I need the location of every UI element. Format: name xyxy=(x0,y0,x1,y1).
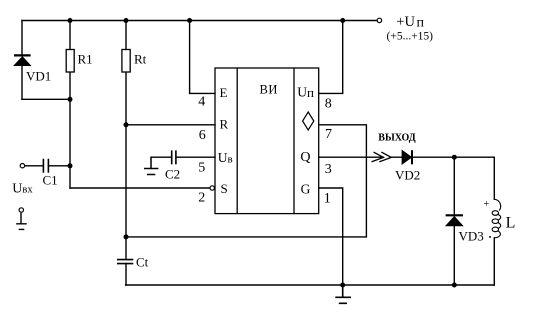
svg-text:C1: C1 xyxy=(43,173,58,188)
ground input terminal xyxy=(16,213,27,230)
wire VD1 branch vertical xyxy=(21,21,23,100)
wire R pin horizontal xyxy=(126,124,215,126)
svg-text:Rt: Rt xyxy=(134,52,147,67)
svg-text:VD3: VD3 xyxy=(459,229,484,244)
diode VD2 xyxy=(402,150,412,164)
output arrow chevrons xyxy=(372,152,391,161)
wire E pin xyxy=(190,21,215,94)
wire VD1 bottom horizontal xyxy=(22,98,70,100)
capacitor Ct xyxy=(117,260,133,264)
svg-text:Uвх: Uвх xyxy=(12,181,33,196)
capacitor C1 xyxy=(43,159,48,173)
junction pin7 return Rt line xyxy=(124,234,129,239)
label minus polarity xyxy=(489,236,491,238)
ground under C2 xyxy=(144,157,158,174)
junction C1 input node xyxy=(68,163,73,168)
resistor Rt xyxy=(122,50,130,73)
junction R-pin Rt xyxy=(124,122,129,127)
wire pin 8 to rail xyxy=(319,21,343,94)
diode VD1 xyxy=(14,55,31,65)
svg-text:S: S xyxy=(221,181,228,196)
svg-text:7: 7 xyxy=(325,127,332,142)
svg-text:R: R xyxy=(220,117,229,132)
svg-text:E: E xyxy=(220,85,228,100)
wire top supply rail xyxy=(22,20,377,22)
junction Rt top rail xyxy=(124,18,129,23)
svg-text:+: + xyxy=(484,199,490,210)
capacitor C2 xyxy=(172,150,176,164)
svg-text:L: L xyxy=(506,215,516,232)
junction VD3 bottom rail xyxy=(452,283,457,288)
svg-text:1: 1 xyxy=(324,191,332,207)
terminal Uvx open circle xyxy=(20,164,24,168)
svg-text:VD2: VD2 xyxy=(395,168,420,183)
svg-text:8: 8 xyxy=(325,97,332,112)
wire G pin 1 down xyxy=(319,188,343,285)
svg-text:G: G xyxy=(301,182,311,197)
terminal input common open circle xyxy=(19,208,23,212)
pin S inversion bubble xyxy=(210,186,214,190)
inductor L coil xyxy=(492,199,501,238)
wire VD3 branch xyxy=(453,157,455,285)
wire Q output pin 3 xyxy=(319,156,495,158)
terminal +Up open circle xyxy=(377,18,381,22)
svg-text:Q: Q xyxy=(300,150,310,165)
svg-text:Ct: Ct xyxy=(136,255,149,270)
diamond symbol pin 7 xyxy=(303,112,314,130)
svg-text:3: 3 xyxy=(325,162,332,177)
diode VD3 xyxy=(446,215,463,226)
wire Rt leads vertical xyxy=(125,21,127,286)
wire R1 leads vertical xyxy=(69,21,71,189)
svg-text:ВЫХОД: ВЫХОД xyxy=(378,133,415,144)
wire C1 input xyxy=(25,165,70,167)
svg-text:2: 2 xyxy=(198,191,205,206)
svg-text:ВИ: ВИ xyxy=(260,83,279,97)
svg-text:Uв: Uв xyxy=(218,150,233,165)
junction VD2 output node xyxy=(452,155,457,160)
svg-text:4: 4 xyxy=(198,95,205,110)
svg-text:+Uп: +Uп xyxy=(396,14,424,31)
wire inductor branch xyxy=(493,157,495,285)
junction E-wire top rail xyxy=(187,18,192,23)
op-amp U1 IC box VI xyxy=(215,68,319,214)
svg-text:Uп: Uп xyxy=(297,85,314,100)
svg-text:6: 6 xyxy=(199,128,206,143)
wire C2 to Uv pin xyxy=(151,156,215,158)
ground main bottom xyxy=(335,285,351,303)
svg-text:R1: R1 xyxy=(78,52,93,67)
junction VD1-R1 bottom xyxy=(68,97,73,102)
wire S pin horizontal xyxy=(70,187,210,189)
svg-text:C2: C2 xyxy=(165,167,180,182)
junction R1 top rail xyxy=(68,18,73,23)
svg-text:5: 5 xyxy=(198,161,205,176)
junction pin8 top rail xyxy=(340,18,345,23)
junction ground bottom rail xyxy=(340,283,345,288)
svg-text:(+5...+15): (+5...+15) xyxy=(387,31,434,43)
svg-text:VD1: VD1 xyxy=(26,69,51,84)
wire pin 7 down and left xyxy=(126,125,366,237)
wire bottom rail xyxy=(126,284,495,286)
resistor R1 xyxy=(66,50,74,73)
